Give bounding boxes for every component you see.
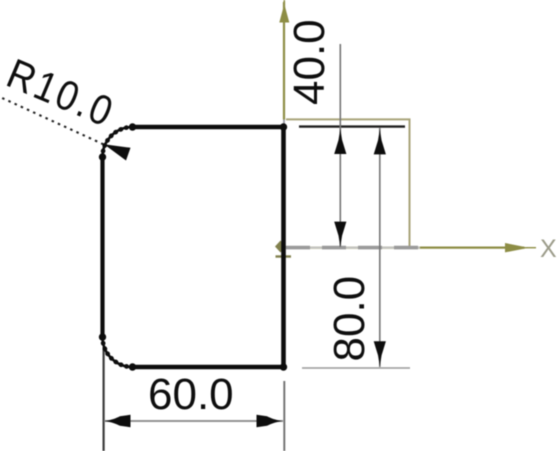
svg-text:60.0: 60.0 bbox=[148, 370, 234, 419]
svg-text:X: X bbox=[540, 235, 557, 263]
svg-text:40.0: 40.0 bbox=[285, 19, 334, 105]
svg-text:80.0: 80.0 bbox=[325, 276, 374, 362]
